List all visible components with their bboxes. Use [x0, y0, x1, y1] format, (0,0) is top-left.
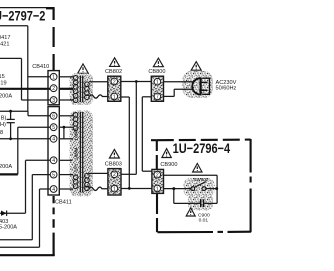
svg-text:2: 2	[113, 79, 116, 85]
svg-text:CB803: CB803	[105, 162, 122, 168]
svg-text:1: 1	[113, 94, 116, 100]
svg-text:4: 4	[52, 187, 55, 193]
svg-text:L0603: L0603	[73, 128, 78, 141]
svg-text:200A: 200A	[0, 164, 12, 170]
svg-text:CB410: CB410	[32, 64, 49, 70]
svg-text:1: 1	[156, 80, 159, 86]
svg-text:CB411: CB411	[55, 200, 72, 206]
svg-text:3: 3	[52, 98, 55, 104]
svg-text:CB802: CB802	[105, 69, 122, 75]
svg-text:SW900: SW900	[193, 177, 209, 182]
svg-text:CB900: CB900	[160, 162, 177, 168]
svg-text:0421: 0421	[0, 42, 9, 48]
svg-text:B): B)	[1, 115, 7, 121]
svg-text:7: 7	[156, 94, 159, 100]
svg-text:5: 5	[52, 173, 55, 179]
svg-text:0.01: 0.01	[199, 217, 209, 223]
svg-text:4: 4	[52, 158, 55, 164]
svg-text:CB800: CB800	[148, 69, 165, 75]
svg-text:-19: -19	[0, 81, 7, 87]
svg-text:5: 5	[52, 125, 55, 131]
svg-text:1: 1	[156, 186, 159, 192]
svg-text:50/60Hz: 50/60Hz	[216, 86, 237, 92]
svg-text:6: 6	[52, 114, 55, 120]
svg-text:2: 2	[156, 173, 159, 179]
svg-text:1U−2796−4: 1U−2796−4	[173, 141, 231, 156]
svg-text:2: 2	[113, 172, 116, 178]
svg-text:15: 15	[0, 74, 5, 80]
svg-text:L0604: L0604	[73, 147, 78, 160]
svg-text:U−2797−2: U−2797−2	[0, 8, 45, 23]
svg-text:0417: 0417	[0, 35, 10, 41]
svg-text:4: 4	[52, 137, 55, 143]
svg-text:5-200A: 5-200A	[0, 225, 17, 231]
svg-text:1: 1	[113, 187, 116, 193]
svg-text:1: 1	[52, 75, 55, 81]
svg-text:8: 8	[0, 130, 3, 136]
svg-text:2: 2	[52, 86, 55, 92]
svg-text:H): H)	[0, 122, 6, 128]
svg-text:GRY: GRY	[73, 163, 78, 172]
svg-text:200A: 200A	[0, 93, 12, 99]
